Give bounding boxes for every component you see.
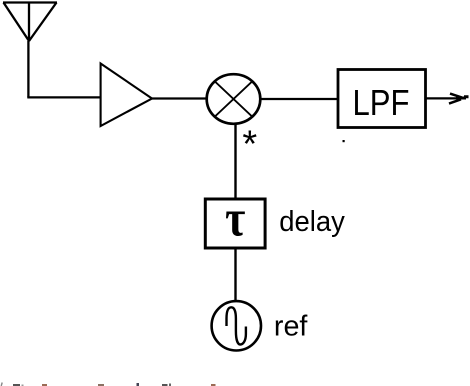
wire antenna feed — [27, 41, 29, 97]
wire delay to ref oscillator — [234, 248, 236, 302]
svg-text:*: * — [242, 124, 257, 166]
antenna ANT1 — [3, 3, 57, 42]
stray dot — [343, 140, 345, 142]
arrowhead — [449, 94, 462, 104]
caption cut-off at bottom — [1, 383, 215, 386]
svg-text:LPF: LPF — [353, 82, 410, 123]
sine wave symbol — [227, 307, 246, 344]
amplifier A1 — [101, 64, 152, 127]
wire antenna to amplifier — [27, 96, 100, 98]
svg-text:τ: τ — [225, 190, 245, 247]
delay block T1 box — [205, 199, 265, 248]
wire mixer to delay — [234, 124, 236, 198]
ref oscillator OSC1 circle — [212, 301, 261, 350]
output wire — [426, 97, 461, 99]
svg-text:ref: ref — [274, 311, 308, 343]
mixer X cross — [215, 81, 253, 117]
mixer M1 circle — [207, 74, 261, 124]
arrow tip blob — [456, 97, 469, 98]
svg-text:delay: delay — [279, 206, 345, 238]
wire mixer to LPF — [260, 98, 338, 100]
LPF box F1 — [338, 70, 426, 128]
wire amplifier to mixer — [152, 97, 206, 99]
